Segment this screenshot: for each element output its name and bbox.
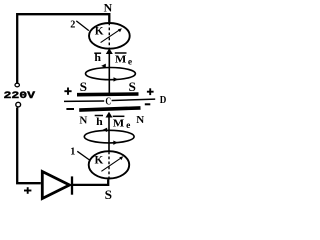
svg-text:M: M [113,117,125,129]
svg-text:N: N [79,114,87,126]
svg-text:h: h [94,53,101,64]
svg-text:K: K [95,25,104,37]
svg-text:e: e [126,121,130,131]
svg-text:M: M [115,54,127,66]
svg-text:K: K [95,155,104,167]
svg-text:S: S [105,188,112,202]
svg-text:e: e [128,57,132,67]
svg-text:C: C [105,97,111,108]
svg-text:220V: 220V [4,91,37,102]
svg-text:1: 1 [70,146,75,157]
svg-text:N: N [104,3,113,15]
svg-text:2: 2 [70,20,75,31]
svg-text:D: D [160,95,167,106]
svg-text:S: S [80,80,87,94]
svg-text:S: S [129,80,136,94]
svg-text:h: h [96,117,103,128]
svg-text:N: N [136,114,144,126]
